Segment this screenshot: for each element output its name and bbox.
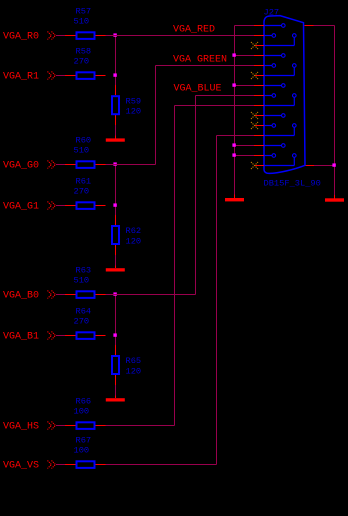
ground below R62 <box>106 265 125 271</box>
svg-text:VGA_VS: VGA_VS <box>3 461 39 472</box>
wire VGA_BLUE to pin 3 <box>196 95 255 97</box>
wire VGA_BLUE horizontal from ladder <box>106 294 196 296</box>
svg-text:R57: R57 <box>76 6 92 16</box>
wire VGA_GREEN horizontal from ladder <box>106 164 156 166</box>
wire ground spur pin 10 <box>235 145 255 147</box>
wire VGA_G1 lead <box>56 205 65 207</box>
ground below connector right <box>325 195 344 202</box>
svg-text:R67: R67 <box>76 435 92 445</box>
wire VGA_B0 lead <box>56 294 65 296</box>
wire shield top lead <box>305 25 314 27</box>
svg-text:J27: J27 <box>264 7 280 17</box>
port VGA_B0 <box>3 291 56 302</box>
resistor R60 510 <box>65 135 106 168</box>
svg-text:VGA_B0: VGA_B0 <box>3 291 39 302</box>
svg-text:VGA_BLUE: VGA_BLUE <box>174 83 222 94</box>
wire R62 to ground <box>115 255 117 265</box>
pin 2 row 5 <box>254 64 276 68</box>
wire VGA_GREEN vertical <box>155 66 157 165</box>
wire VGA_R0 lead <box>56 35 65 37</box>
pin 15 row 15 <box>254 154 296 166</box>
svg-text:120: 120 <box>126 236 142 246</box>
wire ground spur pin 8 <box>235 85 255 87</box>
wire VGA_VS lead <box>56 464 65 466</box>
wire VGA_RED ladder vertical <box>115 36 117 86</box>
wire R59 to ground <box>115 125 117 135</box>
svg-text:100: 100 <box>74 445 90 455</box>
wire VGA_B1 lead <box>56 335 65 337</box>
pin 6 row 1 <box>254 24 285 28</box>
connector J27 body DB15F_3L_90 <box>264 16 305 174</box>
svg-text:100: 100 <box>74 406 90 416</box>
resistor R66 100 <box>65 396 106 429</box>
no-connect X pin 12 <box>251 72 258 79</box>
ground below connector left <box>225 195 244 202</box>
wire VGA_BLUE vertical <box>195 96 197 295</box>
wire ground spur pin 6 <box>235 25 255 27</box>
wire shield top <box>314 25 335 27</box>
resistor R57 510 <box>65 6 106 39</box>
svg-text:510: 510 <box>74 145 90 155</box>
svg-text:VGA_HS: VGA_HS <box>3 422 39 433</box>
ground below R65 <box>106 395 125 401</box>
junction ground bus y55 <box>232 53 235 56</box>
no-connect X pin 11 <box>251 42 258 49</box>
wire VGA_G0 lead <box>56 164 65 166</box>
wire shield bottom <box>314 165 335 167</box>
port VGA_R1 <box>3 72 56 83</box>
wire VGA_HS lead <box>56 425 65 427</box>
wire VGA_RED to pin 1 <box>106 35 255 37</box>
pin 4 row 11 <box>254 124 276 128</box>
wire VGA_HS horizontal <box>106 425 175 427</box>
port VGA_G1 <box>3 202 56 213</box>
resistor R58 270 <box>65 46 106 79</box>
pin 11 row 3 <box>254 34 296 46</box>
svg-text:R58: R58 <box>76 46 92 56</box>
no-connect X pin 15 <box>251 162 258 169</box>
resistor R59 120 <box>112 85 141 125</box>
junction shield <box>332 163 335 166</box>
svg-text:270: 270 <box>74 316 90 326</box>
resistor R63 510 <box>65 265 106 298</box>
svg-text:R62: R62 <box>126 226 142 236</box>
svg-text:R66: R66 <box>76 396 92 406</box>
pin 14 row 12 <box>254 124 296 136</box>
pin 9 row 10 <box>254 114 285 118</box>
svg-text:R61: R61 <box>76 176 92 186</box>
wire VGA_VS vertical <box>216 136 218 465</box>
wire VGA_BLUE ladder vertical <box>115 295 117 346</box>
svg-text:R63: R63 <box>76 265 92 275</box>
junction VGA_RED at R ladder top <box>113 33 116 36</box>
port VGA_R0 <box>3 32 56 43</box>
wire shield bottom lead <box>305 165 314 167</box>
svg-text:VGA_G1: VGA_G1 <box>3 202 39 213</box>
junction VGA_BLUE at R ladder bottom <box>113 333 116 336</box>
pin 10 row 13 <box>254 144 285 148</box>
junction VGA_BLUE at R ladder top <box>113 292 116 295</box>
wire VGA_VS to pin 14 <box>217 135 255 137</box>
svg-text:120: 120 <box>126 366 142 376</box>
svg-text:VGA_G0: VGA_G0 <box>3 161 39 172</box>
port VGA_B1 <box>3 332 56 343</box>
pin 5 row 14 <box>254 154 276 158</box>
svg-text:510: 510 <box>74 16 90 26</box>
wire VGA_GREEN ladder vertical <box>115 165 117 216</box>
junction ground bus y85 <box>232 83 235 86</box>
pin 3 row 8 <box>254 94 276 98</box>
svg-text:R60: R60 <box>76 135 92 145</box>
svg-text:DB15F_3L_90: DB15F_3L_90 <box>264 178 321 188</box>
svg-text:270: 270 <box>74 186 90 196</box>
junction VGA_RED at R ladder bottom <box>113 73 116 76</box>
svg-text:VGA GREEN: VGA GREEN <box>173 55 227 66</box>
svg-text:VGA_B1: VGA_B1 <box>3 332 39 343</box>
resistor R67 100 <box>65 435 106 468</box>
ground below R59 <box>106 136 125 142</box>
pin 8 row 7 <box>254 84 285 88</box>
junction VGA_GREEN at R ladder bottom <box>113 203 116 206</box>
resistor R61 270 <box>65 176 106 209</box>
pin 7 row 4 <box>254 54 285 58</box>
wire ground bus vertical <box>234 26 236 195</box>
svg-text:VGA_RED: VGA_RED <box>173 25 215 36</box>
svg-text:R65: R65 <box>126 356 142 366</box>
svg-text:VGA_R0: VGA_R0 <box>3 32 39 43</box>
wire ground spur pin 7 <box>235 55 255 57</box>
no-connect X pin 4 <box>251 122 258 129</box>
port VGA_VS <box>3 461 56 472</box>
wire VGA_VS horizontal <box>106 464 217 466</box>
wire R65 to ground <box>115 385 117 395</box>
svg-text:510: 510 <box>74 275 90 285</box>
junction ground bus y155 <box>232 153 235 156</box>
svg-text:270: 270 <box>74 56 90 66</box>
wire VGA_HS vertical <box>174 106 176 426</box>
junction ground bus y145 <box>232 143 235 146</box>
port VGA_G0 <box>3 161 56 172</box>
wire VGA_GREEN to pin 2 <box>156 65 255 67</box>
svg-text:R59: R59 <box>126 96 142 106</box>
resistor R62 120 <box>112 215 141 255</box>
port VGA_HS <box>3 422 56 433</box>
wire ground spur pin 5 <box>235 155 255 157</box>
wire VGA_HS to pin 13 <box>175 105 255 107</box>
no-connect X pin 9 <box>251 112 258 119</box>
resistor R64 270 <box>65 306 106 339</box>
svg-text:120: 120 <box>126 107 142 117</box>
wire VGA_R1 lead <box>56 75 65 77</box>
svg-text:R64: R64 <box>76 306 92 316</box>
svg-text:VGA_R1: VGA_R1 <box>3 72 39 83</box>
pin 13 row 9 <box>254 94 296 106</box>
junction VGA_GREEN at R ladder top <box>113 162 116 165</box>
pin 1 row 2 <box>254 34 276 38</box>
wire shield vertical <box>334 26 336 195</box>
pin 12 row 6 <box>254 64 296 76</box>
resistor R65 120 <box>112 345 141 385</box>
